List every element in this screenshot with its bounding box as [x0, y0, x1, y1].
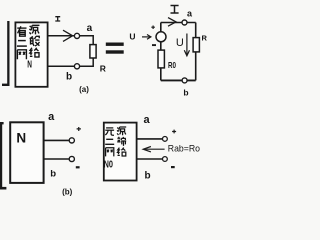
- resistor R0 (internal): [158, 50, 164, 68]
- wire: source to R0: [160, 42, 162, 50]
- network box N0 (passive two-terminal network): [104, 123, 137, 181]
- label 段: [30, 36, 40, 46]
- label 网: [106, 148, 114, 157]
- terminal top (circle): [163, 137, 168, 142]
- wire top (box to terminal): [44, 139, 70, 141]
- label +: [77, 127, 81, 131]
- svg-text:a: a: [87, 23, 93, 34]
- label 络: [30, 48, 39, 57]
- wire: top rail: [161, 22, 196, 24]
- wire bottom (terminal b to box): [48, 65, 75, 67]
- svg-text:R: R: [100, 63, 106, 73]
- terminal bottom (circle): [163, 157, 168, 162]
- label 无: [105, 128, 114, 135]
- label I: [55, 17, 60, 21]
- resistor R (load, right branch): [193, 38, 199, 52]
- wire: bottom rail: [161, 79, 196, 81]
- small arrow toward source: [142, 35, 151, 40]
- network box N: [10, 122, 43, 183]
- current arrow on top rail: [168, 18, 176, 27]
- label -: [76, 166, 80, 168]
- svg-text:U: U: [176, 37, 184, 49]
- svg-text:a: a: [144, 114, 151, 126]
- current arrow on top wire: [63, 30, 73, 41]
- wire: R to bottom rail: [195, 52, 197, 81]
- svg-text:N0: N0: [104, 159, 114, 171]
- label I: [171, 6, 179, 14]
- terminal top (circle): [69, 138, 74, 143]
- svg-text:(a): (a): [79, 85, 89, 94]
- label 络: [118, 148, 126, 156]
- terminal b (circle): [74, 64, 79, 69]
- network box N (active two-terminal network): [15, 22, 47, 86]
- wire from a to resistor R: [80, 36, 94, 45]
- svg-text:N: N: [16, 130, 26, 146]
- + polarity of source: [151, 26, 155, 30]
- svg-text:Rab=Ro: Rab=Ro: [168, 144, 200, 155]
- wire bottom (box to terminal): [137, 158, 163, 160]
- equals sign: [106, 43, 124, 54]
- svg-text:b: b: [183, 87, 188, 97]
- wire top (box to terminal): [137, 138, 163, 140]
- svg-text:(b): (b): [62, 187, 73, 196]
- wire top (box to terminal a): [48, 35, 75, 37]
- resistance arrow (pointing left into network): [143, 147, 164, 152]
- svg-text:a: a: [48, 111, 55, 123]
- terminal a (circle): [74, 33, 79, 38]
- label 二: [17, 41, 27, 47]
- svg-text:R: R: [201, 33, 207, 42]
- resistor R (load): [90, 45, 96, 58]
- svg-text:N: N: [27, 59, 32, 71]
- svg-text:b: b: [66, 71, 72, 82]
- wire from resistor R to terminal b: [80, 58, 94, 66]
- label 源: [117, 127, 126, 135]
- cut-off frame bar (left margin artifact, bottom): [0, 122, 6, 190]
- terminal bottom (circle): [69, 156, 74, 161]
- svg-text:b: b: [144, 171, 150, 182]
- wire: R0 to bottom rail: [160, 68, 162, 81]
- label -: [171, 166, 175, 168]
- wire: left branch top (rail to source): [160, 23, 162, 32]
- svg-text:U: U: [129, 32, 135, 42]
- cut-off frame bar (left margin artifact, top): [2, 21, 10, 86]
- voltage source circle U: [156, 32, 166, 42]
- svg-text:b: b: [50, 169, 56, 180]
- label +: [172, 130, 176, 134]
- svg-text:R0: R0: [168, 60, 176, 70]
- label 端: [117, 137, 126, 146]
- wire: right branch top (rail to R): [195, 23, 197, 38]
- voltage arrow (downward): [184, 34, 189, 56]
- - polarity of source: [152, 44, 156, 46]
- label 源: [29, 25, 39, 34]
- label 网: [17, 50, 26, 59]
- label 有: [17, 26, 26, 36]
- label 二: [105, 139, 114, 144]
- wire bottom (box to terminal): [44, 158, 70, 160]
- terminal a (circle on top rail): [182, 20, 187, 25]
- terminal b (circle on bottom rail): [182, 78, 187, 83]
